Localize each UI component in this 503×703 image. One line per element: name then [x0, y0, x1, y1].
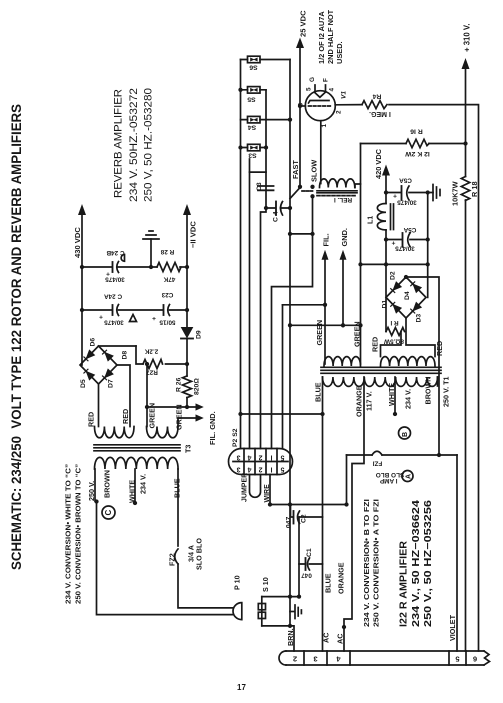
svg-text:BLUE: BLUE: [324, 573, 333, 593]
svg-text:250 V. CONVERSION• A TO FZI: 250 V. CONVERSION• A TO FZI: [374, 499, 381, 627]
svg-text:I2 K 2W: I2 K 2W: [405, 150, 430, 157]
svg-text:2: 2: [258, 454, 262, 461]
svg-text:S3: S3: [248, 152, 257, 159]
svg-text:4: 4: [336, 655, 341, 664]
svg-text:30/475: 30/475: [104, 319, 124, 326]
svg-text:+ 310 V.: + 310 V.: [463, 23, 472, 52]
svg-text:3: 3: [298, 103, 305, 107]
svg-text:047: 047: [301, 572, 312, 579]
svg-text:ORANGE: ORANGE: [337, 562, 346, 594]
svg-text:25 VDC: 25 VDC: [299, 10, 308, 37]
svg-text:T3: T3: [184, 445, 193, 453]
svg-text:I: I: [270, 454, 272, 461]
svg-text:REVERB AMPLIFIER: REVERB AMPLIFIER: [113, 89, 125, 198]
svg-text:250 V, 50 HZ.-053280: 250 V, 50 HZ.-053280: [143, 88, 155, 202]
svg-text:2: 2: [336, 110, 343, 114]
svg-text:R I6: R I6: [410, 128, 423, 135]
svg-text:GREEN: GREEN: [353, 321, 362, 347]
svg-text:1/2 OF I2 AU7A: 1/2 OF I2 AU7A: [317, 11, 326, 64]
svg-text:+: +: [393, 192, 397, 199]
svg-text:5: 5: [455, 655, 460, 664]
svg-text:R27: R27: [146, 369, 158, 376]
svg-text:I22 R AMPLIFIER: I22 R AMPLIFIER: [399, 540, 410, 627]
svg-text:I AMP: I AMP: [379, 477, 397, 484]
svg-text:C3: C3: [256, 182, 263, 191]
svg-text:30/475: 30/475: [397, 199, 417, 206]
svg-text:−II VDC: −II VDC: [189, 221, 198, 248]
svg-text:5: 5: [306, 87, 313, 91]
svg-text:5: 5: [280, 454, 284, 461]
svg-text:FZ2: FZ2: [168, 553, 177, 566]
svg-text:BRN.: BRN.: [286, 628, 295, 646]
svg-text:234 V. CONVERSION• WHITE TO “C: 234 V. CONVERSION• WHITE TO “C”: [66, 464, 73, 604]
svg-text:USED.: USED.: [335, 41, 344, 64]
svg-text:C5A: C5A: [403, 226, 416, 233]
svg-text:250 V., 50 HZ−053256: 250 V., 50 HZ−053256: [423, 499, 434, 627]
svg-text:BLUE: BLUE: [314, 382, 323, 402]
svg-text:D6: D6: [90, 338, 97, 347]
svg-text:D1: D1: [382, 300, 389, 309]
svg-text:ORANGE: ORANGE: [355, 385, 364, 417]
svg-text:C23: C23: [161, 291, 173, 298]
svg-text:3: 3: [313, 655, 317, 664]
svg-text:RED: RED: [435, 341, 444, 356]
svg-text:234 V.: 234 V.: [139, 474, 148, 494]
svg-text:B: B: [402, 432, 409, 437]
svg-text:+: +: [106, 270, 110, 277]
svg-text:D3: D3: [416, 314, 423, 323]
svg-text:4: 4: [247, 454, 251, 461]
svg-text:C1: C1: [306, 548, 313, 557]
svg-text:WIRE: WIRE: [264, 484, 271, 503]
svg-text:P 10: P 10: [233, 575, 242, 590]
svg-text:WHITE: WHITE: [387, 383, 396, 406]
svg-text:RED: RED: [121, 409, 130, 424]
svg-text:250 V. CONVERSION• BROWN TO “C: 250 V. CONVERSION• BROWN TO “C”: [76, 464, 83, 604]
svg-text:4: 4: [247, 466, 251, 473]
svg-text:10K7W: 10K7W: [451, 181, 460, 206]
svg-text:GREEN: GREEN: [175, 404, 184, 430]
svg-text:D2: D2: [390, 271, 397, 280]
svg-text:F: F: [323, 78, 330, 82]
svg-text:D5: D5: [80, 379, 87, 388]
svg-text:AC: AC: [336, 634, 345, 644]
svg-text:234 V., 50 HZ−036624: 234 V., 50 HZ−036624: [411, 499, 422, 627]
svg-text:D9: D9: [196, 330, 203, 339]
svg-text:JUMPER: JUMPER: [242, 473, 249, 502]
svg-text:5: 5: [280, 466, 284, 473]
svg-text:S4: S4: [248, 124, 257, 131]
svg-text:FIL.: FIL.: [322, 233, 331, 246]
svg-text:P2 S2: P2 S2: [232, 428, 239, 447]
svg-text:V1: V1: [341, 91, 348, 99]
svg-text:A: A: [406, 474, 413, 479]
svg-text:+: +: [99, 313, 103, 320]
svg-text:2: 2: [293, 655, 297, 664]
svg-text:BROWN: BROWN: [103, 470, 112, 498]
svg-text:S 10: S 10: [261, 577, 270, 592]
svg-text:30/475: 30/475: [395, 245, 415, 252]
svg-text:6: 6: [473, 655, 477, 664]
svg-text:2: 2: [258, 466, 262, 473]
svg-text:C 24A: C 24A: [104, 293, 122, 300]
svg-text:R I: R I: [390, 319, 398, 326]
svg-text:SCHEMATIC: 234/250 VOLT TYPE: SCHEMATIC: 234/250 VOLT TYPE 122 ROTOR A…: [9, 104, 25, 570]
svg-text:D4: D4: [404, 291, 411, 300]
svg-text:SLO BLO: SLO BLO: [195, 538, 204, 570]
svg-text:S5: S5: [247, 96, 256, 103]
svg-text:820Ω: 820Ω: [194, 378, 201, 395]
svg-text:REL. I: REL. I: [334, 196, 352, 203]
svg-text:D7: D7: [108, 379, 115, 388]
svg-text:RED: RED: [371, 337, 380, 352]
svg-text:GREEN: GREEN: [148, 403, 157, 429]
svg-text:I MEG.: I MEG.: [369, 110, 391, 117]
svg-text:FIL. GND.: FIL. GND.: [208, 411, 217, 445]
svg-text:VIOLET: VIOLET: [448, 614, 457, 641]
svg-text:1: 1: [321, 124, 328, 128]
svg-text:50/15: 50/15: [159, 319, 175, 326]
svg-text:8Ω.5W: 8Ω.5W: [383, 338, 404, 345]
svg-text:C: C: [104, 510, 113, 516]
svg-text:C2: C2: [301, 514, 308, 523]
svg-text:2.2K: 2.2K: [144, 348, 158, 355]
svg-text:SLOW: SLOW: [310, 160, 319, 182]
svg-text:BLUE: BLUE: [173, 478, 182, 498]
svg-text:GND.: GND.: [340, 228, 349, 246]
svg-text:3: 3: [236, 466, 240, 473]
svg-text:4: 4: [329, 88, 336, 92]
svg-text:R 18: R 18: [470, 181, 479, 197]
svg-text:R4: R4: [372, 93, 381, 100]
svg-text:L1: L1: [368, 216, 375, 224]
svg-text:G: G: [309, 77, 316, 82]
svg-text:420 VDC: 420 VDC: [374, 148, 383, 179]
svg-text:17: 17: [237, 683, 246, 692]
svg-text:C 24B: C 24B: [106, 249, 124, 256]
svg-text:BROWN: BROWN: [424, 377, 433, 405]
svg-text:C 4: C 4: [273, 211, 280, 222]
svg-text:234 V.: 234 V.: [404, 389, 413, 409]
svg-text:2ND HALF NOT: 2ND HALF NOT: [326, 9, 335, 64]
svg-text:S6: S6: [249, 64, 258, 71]
svg-text:WHITE: WHITE: [128, 480, 137, 503]
svg-text:+: +: [391, 239, 395, 246]
svg-text:AC: AC: [322, 633, 331, 643]
svg-text:250 V.: 250 V.: [87, 481, 96, 501]
svg-text:I: I: [270, 466, 272, 473]
svg-text:C5A: C5A: [399, 177, 412, 184]
svg-text:FZI: FZI: [372, 460, 382, 467]
svg-text:234 V. 50HZ.-053272: 234 V. 50HZ.-053272: [128, 88, 140, 202]
svg-text:47K: 47K: [163, 276, 175, 283]
svg-text:GREEN: GREEN: [315, 320, 324, 346]
svg-text:+: +: [152, 315, 156, 322]
svg-text:117 V.: 117 V.: [365, 391, 374, 411]
svg-text:.047: .047: [286, 517, 293, 530]
svg-text:FAST: FAST: [291, 160, 300, 179]
svg-text:R 28: R 28: [160, 248, 174, 255]
svg-text:250 V. T1: 250 V. T1: [442, 376, 451, 407]
svg-text:RED: RED: [87, 412, 96, 427]
svg-text:3: 3: [236, 454, 240, 461]
svg-text:D8: D8: [122, 351, 129, 360]
svg-text:R 26: R 26: [176, 377, 183, 392]
svg-text:430 VDC: 430 VDC: [73, 227, 82, 258]
svg-text:234 V. CONVERSION• B TO FZI: 234 V. CONVERSION• B TO FZI: [364, 499, 371, 627]
